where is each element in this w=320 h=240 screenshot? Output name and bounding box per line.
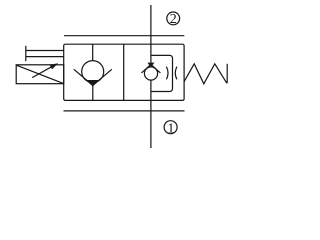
svg-text:1: 1 [167,122,174,137]
check valve CV2 seat [141,65,160,73]
check valve CV1 seat [74,69,112,85]
spring S1 end plate [226,64,228,83]
check valve CV1 ball [82,61,104,83]
solenoid diagonal [16,65,63,83]
port 2 circle [167,12,180,25]
check valve CV2 seat wedge [149,63,154,66]
valve body envelope [64,44,184,100]
check valve CV2 ball [144,67,157,80]
check valve CV1 stem upper [92,44,94,61]
check valve CV1 stem lower [92,85,94,100]
port 1 circle [164,121,177,134]
svg-text:2: 2 [170,12,177,27]
solenoid coil box [16,65,64,84]
armature pin lines [26,51,64,57]
armature pin tick [25,46,27,61]
cartridge shell bottom line [64,110,185,112]
check valve CV1 seat wedge [87,81,98,86]
pilot passage rounded box [151,55,173,91]
spring S1 [184,64,227,84]
internal divider wall [123,44,125,100]
proportional arrow head [50,63,59,69]
wire: port 2 vertical line from top through valve to port 1 [150,5,152,148]
proportional arrow shaft [32,67,51,78]
orifice O1 [166,67,177,80]
cartridge shell top line [64,35,184,37]
